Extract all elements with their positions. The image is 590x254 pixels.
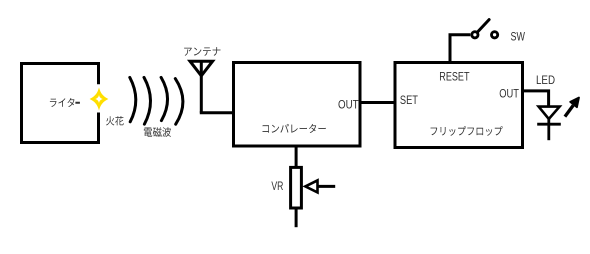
antenna symbol <box>190 61 213 112</box>
label raita (lighter) <box>50 98 80 107</box>
spark star (yellow 4-point) <box>90 87 109 110</box>
svg-text:SET: SET <box>400 93 419 107</box>
wire antenna to comparator <box>200 111 233 114</box>
VR body (potentiometer rect) <box>291 167 302 208</box>
wire below VR <box>295 210 298 228</box>
svg-text:RESET: RESET <box>439 70 470 84</box>
svg-text:VR: VR <box>271 179 283 193</box>
label comparator <box>263 124 326 133</box>
svg-text:SW: SW <box>511 30 526 44</box>
label denjiha (EM wave) <box>144 127 171 137</box>
switch SW (two circles + lever) <box>472 32 478 38</box>
EM wave arcs <box>130 77 183 124</box>
label hibana (spark) <box>106 116 124 125</box>
LED emission arrow <box>565 105 573 116</box>
wire flip-flop RESET up to switch <box>450 35 470 62</box>
LED diode symbol <box>539 107 560 119</box>
wire comparator OUT to flip-flop SET <box>360 101 395 104</box>
VR wiper arrow (open head + line) <box>305 180 317 192</box>
wire flip-flop OUT to LED <box>523 91 549 106</box>
svg-text:OUT: OUT <box>338 97 359 111</box>
flip-flop box <box>395 63 523 148</box>
svg-text:LED: LED <box>536 73 555 87</box>
svg-text:OUT: OUT <box>499 87 519 101</box>
comparator box <box>234 63 361 147</box>
wire comparator to VR <box>295 146 298 167</box>
label flip-flop <box>431 126 503 136</box>
label antenna <box>184 47 220 56</box>
lighter box (with gap on right edge for spark) <box>22 64 99 143</box>
